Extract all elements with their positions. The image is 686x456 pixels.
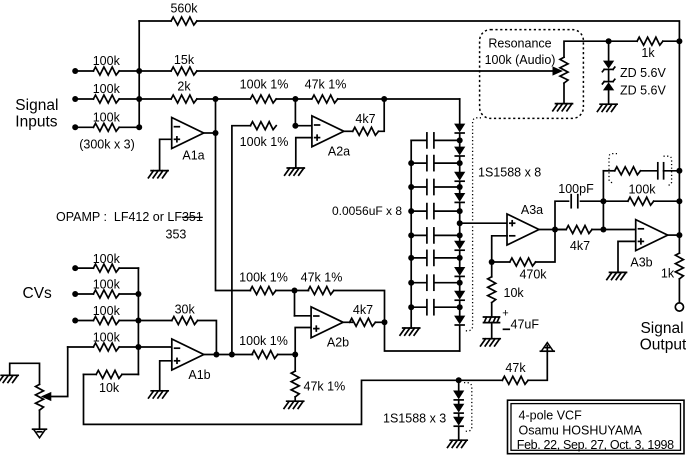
wire A2b summing vertical	[294, 291, 296, 316]
dotted brace 1S1588 x8	[465, 118, 481, 331]
supply +V symbol	[540, 343, 554, 352]
wire A2b minus row	[276, 290, 309, 292]
resistor 4k7 A2b	[350, 318, 376, 326]
resistor 30k	[172, 317, 198, 325]
wire 47k to +V	[528, 351, 547, 380]
svg-text:2k: 2k	[177, 80, 191, 94]
junction CV bus 2	[135, 291, 141, 297]
wire CV pot top	[10, 363, 40, 384]
svg-text:ZD 5.6V: ZD 5.6V	[620, 66, 667, 80]
label Signal	[15, 97, 58, 114]
resistor 560k	[171, 17, 197, 25]
node signal input 1	[72, 68, 78, 74]
junction right rail RC	[676, 168, 682, 174]
svg-text:Signal: Signal	[640, 320, 683, 337]
resistor 47k 1% A2b fb	[308, 287, 334, 295]
wire CV 2 to bus	[119, 293, 138, 295]
label 10k CV	[99, 381, 120, 395]
svg-text:ZD 5.6V: ZD 5.6V	[620, 84, 667, 98]
wire CV input 2	[75, 293, 93, 295]
junction A3a fb node	[489, 259, 495, 265]
resistor 1k output	[675, 253, 683, 279]
svg-text:A2a: A2a	[328, 145, 350, 159]
svg-text:353: 353	[166, 227, 187, 241]
wire x3 seg 1	[458, 400, 460, 404]
capacitor 0.0056uF #2	[427, 156, 434, 171]
wire 470k to output node	[536, 230, 555, 263]
arrowhead into resonance pot	[553, 67, 562, 75]
wire cap rail	[410, 140, 412, 328]
wire 47k lead left	[459, 379, 503, 381]
label 4k7 A2b	[353, 303, 373, 317]
node A1b output	[213, 352, 219, 358]
junction right rail zener row	[676, 38, 682, 44]
wire signal input 3	[75, 126, 93, 128]
node ladder stage 8	[457, 304, 463, 310]
svg-text:100k 1%: 100k 1%	[240, 78, 289, 92]
resistor 100k CV 3	[93, 317, 119, 325]
diode 1S1588 x3 #2	[454, 404, 463, 413]
wire A2b plus vertical	[295, 328, 311, 355]
label 47k 1% A2b fb	[301, 271, 343, 285]
capacitor 100pF	[571, 195, 578, 208]
wire cap 4 left lead	[411, 210, 426, 212]
op-amp A2b	[311, 307, 343, 338]
title line3	[517, 438, 674, 452]
wire 1k lead left	[609, 40, 638, 42]
svg-text:47k 1%: 47k 1%	[305, 78, 347, 92]
svg-text:A3b: A3b	[630, 256, 652, 270]
wire 100pF vertical	[555, 201, 569, 229]
op-amp A3a	[507, 214, 539, 245]
wire 560k row left lead	[139, 20, 171, 22]
wire x3 top lead	[458, 380, 460, 391]
svg-text:Inputs: Inputs	[15, 114, 57, 131]
label Output	[640, 337, 686, 354]
label 47k 1% A2a fb	[305, 78, 347, 92]
resistor 100k 1% A2a in	[250, 95, 276, 103]
label A1b	[188, 368, 210, 382]
svg-text:1S1588 x 8: 1S1588 x 8	[478, 165, 541, 179]
svg-text:100k: 100k	[93, 304, 121, 318]
svg-text:15k: 15k	[174, 53, 195, 67]
label ZD 5.6V upper	[620, 66, 667, 80]
diode D2 1S1588	[455, 147, 464, 156]
wire input 2 to bus	[119, 98, 139, 100]
resistor 100k input 3	[93, 123, 119, 131]
terminal signal output	[675, 303, 683, 311]
wire cap 7 right lead	[435, 282, 460, 284]
node ladder tap	[457, 220, 463, 226]
wire resonance wiper line	[197, 70, 554, 72]
wire 4k7 A2a to node	[379, 99, 385, 131]
wire signal input 1	[75, 70, 93, 72]
label 100k CV 1	[93, 252, 121, 266]
label 100k input 3	[93, 111, 121, 125]
junction bus row 2	[136, 96, 142, 102]
wire CV 3 to bus	[119, 320, 138, 322]
wire A3a out to 4k7	[555, 229, 566, 231]
wire between zeners	[608, 70, 610, 82]
wire A3a minus loop	[492, 236, 507, 262]
node A2b output	[382, 319, 388, 325]
wire diode rail seg 7	[459, 301, 461, 317]
label 470k	[519, 268, 547, 282]
wire pot bottom	[563, 83, 565, 103]
wire 10k row	[84, 373, 97, 375]
wire signal input 2	[75, 98, 93, 100]
label 30k	[175, 302, 196, 316]
ground 47k 1%	[284, 401, 304, 408]
junction bottom node	[456, 377, 462, 383]
svg-text:47uF: 47uF	[511, 318, 540, 332]
resistor 4k7 A3a-A3b	[566, 226, 592, 234]
wire 30k to A1b out	[198, 321, 217, 355]
svg-text:Signal: Signal	[15, 97, 58, 114]
svg-text:100k: 100k	[628, 183, 656, 197]
resistor RC comp	[615, 167, 641, 175]
resistor 100k CV 1	[93, 264, 119, 272]
wire 10k left drop	[84, 374, 459, 424]
svg-text:100k: 100k	[93, 82, 121, 96]
svg-text:1k: 1k	[641, 46, 655, 60]
junction A2a summing top	[292, 96, 298, 102]
node ladder stage 1	[457, 137, 463, 143]
wire ladder bottom return	[385, 322, 460, 351]
supply -V symbol	[33, 429, 47, 438]
diode D5 1S1588	[455, 241, 464, 250]
svg-text:1S1588 x 3: 1S1588 x 3	[383, 412, 446, 426]
svg-text:470k: 470k	[519, 268, 547, 282]
wire 4k7 to A3b minus	[592, 229, 636, 231]
ground 47uF	[481, 339, 501, 346]
dotted bracket RC right	[664, 156, 672, 185]
label 15k	[174, 53, 195, 67]
svg-text:+: +	[502, 308, 508, 320]
wire input 3 to bus	[119, 126, 139, 128]
wire 100k1% left to A1b out	[232, 126, 251, 355]
wire input 1 to bus	[119, 70, 139, 72]
wire diode rail seg 8	[459, 325, 461, 351]
svg-text:560k: 560k	[170, 2, 198, 16]
node ladder stage 5	[457, 232, 463, 238]
svg-text:100k: 100k	[93, 111, 121, 125]
label A2a	[328, 145, 350, 159]
junction cap rail 5	[408, 232, 414, 238]
junction A2a minus	[292, 123, 298, 129]
label 4k7 A3a-A3b	[570, 239, 590, 253]
node CV input 2	[72, 291, 78, 297]
wire cap 7 left lead	[411, 282, 426, 284]
potentiometer resonance 100k	[560, 57, 568, 83]
junction cap rail 6	[408, 255, 414, 261]
resistor 100k input 1	[93, 67, 119, 75]
junction bus row 1	[136, 68, 142, 74]
wire 4k7 A2b right	[375, 321, 384, 323]
label 1k clamp	[641, 46, 655, 60]
label 100k CV 4	[93, 331, 121, 345]
dashed box resonance	[480, 30, 584, 119]
wire x3 seg 2	[458, 414, 460, 418]
label A3a	[521, 203, 543, 217]
label OPAMP note line2	[166, 227, 187, 241]
label 100k CV 2	[93, 278, 121, 292]
node signal input 2	[72, 96, 78, 102]
wire A1b plus to ground	[160, 361, 172, 391]
label Signal out	[640, 320, 683, 337]
wire cap 3 right lead	[435, 186, 460, 188]
arrowhead CV pot wiper	[42, 393, 51, 401]
label 100k input 2	[93, 82, 121, 96]
label 47uF plus	[502, 308, 508, 320]
wire CV 1 to bus	[119, 267, 138, 269]
label 100k A3b fb	[628, 183, 656, 197]
svg-text:Feb. 22, Sep. 27, Oct. 3, 1998: Feb. 22, Sep. 27, Oct. 3, 1998	[517, 438, 674, 452]
wire 1k lead right	[663, 40, 680, 42]
resistor 10k A3a	[488, 277, 496, 303]
wire cap 2 left lead	[411, 162, 426, 164]
capacitor 0.0056uF #7	[427, 275, 434, 290]
node signal input 3	[72, 124, 78, 130]
resistor 47k 1% to ground	[291, 371, 299, 397]
junction A2b summing	[292, 288, 298, 294]
label OPAMP note line1	[56, 210, 203, 224]
wire A2a summing vertical	[294, 99, 296, 126]
wire A2a minus lead	[295, 125, 312, 127]
label 1k output	[661, 267, 675, 281]
label 100k input 1	[93, 54, 121, 68]
resistor 15k	[171, 67, 197, 75]
wire CV 4 to bus	[119, 346, 138, 348]
junction comp node	[600, 198, 606, 204]
ground A1b	[149, 391, 169, 398]
wire 47k1% top lead	[294, 355, 296, 372]
diode D3 1S1588	[455, 172, 464, 181]
wire 560k row to right rail	[197, 21, 680, 41]
wire diode rail seg 3	[459, 182, 461, 194]
svg-text:4-pole VCF: 4-pole VCF	[519, 409, 583, 423]
svg-text:OPAMP : LF412 or LF351: OPAMP : LF412 or LF351	[56, 210, 203, 224]
junction cap rail 7	[408, 280, 414, 286]
junction cap rail 2	[408, 160, 414, 166]
wire 10k bottom lead	[491, 303, 493, 317]
svg-text:Osamu HOSHUYAMA: Osamu HOSHUYAMA	[519, 424, 643, 438]
diode D1 1S1588	[455, 124, 464, 133]
svg-text:47k 1%: 47k 1%	[301, 271, 343, 285]
wire CV row4 left	[68, 346, 94, 348]
resistor 1k clamp	[637, 37, 663, 45]
label A3b	[630, 256, 652, 270]
label CVs	[23, 285, 53, 302]
junction CV bus 3	[135, 318, 141, 324]
wire ladder tap to A3a	[460, 222, 507, 224]
wire 100k fb right lead	[654, 200, 680, 202]
label 47uF	[511, 318, 540, 332]
resistor 4k7 A2a	[353, 127, 379, 135]
label 100k (Audio)	[485, 53, 556, 67]
resistor 100k A3b fb	[628, 197, 654, 205]
node ladder stage 6	[457, 255, 463, 261]
svg-text:47k 1%: 47k 1%	[304, 380, 346, 394]
wire 47uF to ground	[491, 323, 493, 339]
op-amp A1a	[172, 118, 204, 149]
wire right rail upper	[678, 41, 680, 253]
svg-text:A2b: A2b	[327, 336, 349, 350]
resistor 10k CV	[96, 370, 122, 378]
junction A1a feedback node	[213, 96, 219, 102]
wire x3 seg 3	[458, 427, 460, 441]
wire CV bus	[137, 268, 139, 374]
wire 10k top lead	[491, 262, 493, 277]
dotted brace 1S1588 x3	[464, 383, 472, 432]
node A1a output	[213, 130, 219, 136]
capacitor 0.0056uF #8	[427, 300, 434, 315]
svg-text:4k7: 4k7	[355, 112, 375, 126]
svg-text:100k 1%: 100k 1%	[239, 334, 288, 348]
svg-text:A3a: A3a	[521, 203, 543, 217]
wire RC mid lead	[641, 170, 658, 172]
title line2	[519, 424, 643, 438]
label 1S1588 x 3	[383, 412, 446, 426]
svg-text:100k 1%: 100k 1%	[240, 135, 289, 149]
label 0.0056uF x 8	[332, 204, 402, 218]
wire 100pF right lead	[581, 200, 604, 202]
wire RC left lead	[603, 170, 614, 172]
wire A3b plus to ground	[618, 241, 636, 272]
wire A2b fb right	[334, 291, 385, 323]
junction CV bus 4	[135, 344, 141, 350]
wire cap 5 right lead	[435, 234, 460, 236]
svg-text:100k: 100k	[93, 252, 121, 266]
wire A1a output vertical	[216, 99, 251, 291]
ground cap rail	[400, 328, 420, 335]
wire A2b minus lead	[295, 315, 312, 317]
ground 1S1588 x3	[448, 440, 468, 447]
junction right rail 100k	[676, 198, 682, 204]
diode 1S1588 x3 #3	[454, 417, 463, 426]
node A3b output	[676, 232, 682, 238]
resistor 2k	[171, 95, 197, 103]
junction A1b out to A2a	[229, 352, 235, 358]
wire cap 1 right lead	[435, 139, 460, 141]
resistor 47k	[502, 376, 528, 384]
wire zener top	[608, 41, 610, 61]
wire zener bottom	[608, 90, 610, 104]
label 4k7 A2a	[355, 112, 375, 126]
zener ZD1 5.6V	[602, 61, 614, 72]
svg-text:10k: 10k	[504, 286, 525, 300]
wire A3b output	[668, 234, 680, 236]
wire cap 1 left lead	[411, 139, 426, 141]
junction bus row 3	[136, 124, 142, 130]
diode 1S1588 x3 #1	[454, 391, 463, 400]
title box	[508, 400, 685, 454]
wire diode rail seg 2	[459, 156, 461, 172]
wire diode rail seg 1	[459, 133, 461, 147]
label Inputs	[15, 114, 57, 131]
wire 470k left lead	[492, 261, 510, 263]
wire A3a output	[539, 229, 565, 231]
wire cap 6 left lead	[411, 257, 426, 259]
label 10k A3a	[504, 286, 525, 300]
junction A2b plus node	[292, 352, 298, 358]
svg-text:Resonance: Resonance	[488, 37, 551, 51]
label 100k 1% A2b in	[239, 271, 288, 285]
wire CV pot bottom	[39, 410, 41, 429]
wire pot wiper riser	[50, 347, 68, 397]
wire RC right lead	[664, 170, 680, 172]
resistor 470k	[510, 258, 536, 266]
svg-text:30k: 30k	[175, 302, 196, 316]
node A2a output junction	[381, 96, 387, 102]
node A3a output	[552, 227, 558, 233]
label 2k	[177, 80, 191, 94]
wire A1a output	[204, 132, 216, 134]
svg-text:A1b: A1b	[188, 368, 210, 382]
label 47k	[505, 361, 526, 375]
wire 100k fb left lead	[603, 200, 628, 202]
svg-text:CVs: CVs	[23, 285, 53, 302]
wire diode rail seg 4	[459, 203, 461, 242]
node ladder stage 2	[457, 160, 463, 166]
wire cap 8 right lead	[435, 306, 460, 308]
capacitor 0.0056uF #5	[427, 228, 434, 243]
junction cap rail 3	[408, 184, 414, 190]
node ladder stage 7	[457, 280, 463, 286]
ground A3b	[607, 272, 627, 279]
label 100k 1% A2a in	[240, 78, 289, 92]
svg-text:47k: 47k	[505, 361, 526, 375]
wire A2a fb to ladder top	[338, 98, 460, 100]
svg-text:100k: 100k	[93, 331, 121, 345]
title line1	[519, 409, 583, 423]
label 100pF	[558, 182, 594, 196]
node ladder stage 4	[457, 208, 463, 214]
wire 10k to bus	[122, 373, 138, 375]
svg-text:0.0056uF x 8: 0.0056uF x 8	[332, 204, 402, 218]
wire cap 8 left lead	[411, 306, 426, 308]
junction A3b minus node	[600, 227, 606, 233]
wire input summing bus	[138, 21, 140, 127]
svg-text:100pF: 100pF	[558, 182, 594, 196]
dotted bracket RC left	[609, 154, 617, 183]
resistor 100k input 2	[93, 95, 119, 103]
wire A2a minus node row	[276, 98, 311, 100]
wire cap 4 right lead	[435, 210, 460, 212]
svg-text:4k7: 4k7	[353, 303, 373, 317]
capacitor 0.0056uF #3	[427, 180, 434, 195]
diode D8 1S1588	[455, 316, 464, 325]
svg-text:100k 1%: 100k 1%	[239, 271, 288, 285]
wire A1b minus lead	[138, 346, 171, 348]
node CV input 3	[72, 318, 78, 324]
label (300k x 3)	[79, 138, 135, 152]
label A1a	[182, 149, 204, 163]
resistor 100k CV 2	[93, 290, 119, 298]
wire output jack lead	[678, 279, 680, 303]
resistor 100k 1% CV to A2a	[250, 122, 276, 130]
wire cap 6 right lead	[435, 257, 460, 259]
node CV input 1	[72, 265, 78, 271]
wire cap 5 left lead	[411, 234, 426, 236]
resistor 100k CV 4	[93, 343, 119, 351]
wire 2k to A1a output node	[197, 98, 250, 100]
ground CV pot top	[0, 375, 18, 382]
wire A2a plus to ground	[296, 138, 312, 168]
diode D6 1S1588	[455, 268, 464, 277]
wire CV input 1	[75, 267, 93, 269]
diode D4 1S1588	[455, 194, 464, 203]
